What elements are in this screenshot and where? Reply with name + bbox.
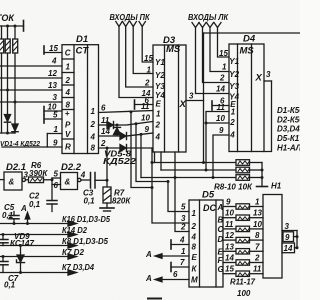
svg-text:8: 8 [255,231,260,240]
svg-text:3: 3 [285,222,290,231]
svg-text:Y3: Y3 [229,82,239,91]
svg-text:B: B [218,216,224,225]
svg-text:Y2: Y2 [155,71,165,80]
svg-text:4: 4 [179,236,185,245]
svg-text:4: 4 [80,171,86,180]
svg-text:14: 14 [101,127,110,136]
svg-text:Y1: Y1 [155,58,165,67]
svg-text:К8 D1,D3-D5: К8 D1,D3-D5 [62,237,109,246]
svg-text:MS: MS [240,46,255,57]
svg-text:ТОК: ТОК [0,13,15,23]
svg-text:R11-17: R11-17 [230,278,256,287]
svg-text:1: 1 [91,107,96,116]
svg-text:13: 13 [253,209,262,218]
svg-text:0,1: 0,1 [84,197,96,206]
svg-text:E: E [192,253,198,262]
svg-text:390К: 390К [29,169,48,178]
svg-text:М: М [191,276,198,285]
svg-text:К16 D1,D3-D5: К16 D1,D3-D5 [62,215,111,224]
svg-text:1: 1 [231,108,236,117]
svg-text:R8-10 10К: R8-10 10К [214,183,253,192]
svg-text:&: & [65,178,71,187]
svg-text:1: 1 [222,63,227,72]
svg-text:15: 15 [225,265,234,274]
svg-text:14: 14 [216,85,225,94]
svg-text:11: 11 [253,265,262,274]
svg-text:&: & [9,178,15,187]
svg-text:12: 12 [225,231,234,240]
svg-text:11: 11 [141,102,150,111]
svg-text:R: R [65,143,71,152]
svg-text:КД522: КД522 [103,157,137,166]
svg-text:9: 9 [226,198,231,207]
svg-text:15: 15 [144,54,153,63]
svg-text:К14 D2: К14 D2 [62,226,88,235]
svg-text:3: 3 [24,171,29,180]
svg-text:1: 1 [192,209,197,218]
svg-text:ВХОДЫ ПК: ВХОДЫ ПК [110,13,151,22]
svg-text:13: 13 [48,81,57,90]
svg-text:1: 1 [54,125,59,134]
svg-text:7: 7 [180,258,185,267]
svg-text:MS: MS [166,44,181,55]
svg-text:14: 14 [284,244,293,253]
svg-text:D5-К176: D5-К176 [277,134,300,143]
svg-text:10: 10 [141,114,150,123]
svg-text:4: 4 [229,131,235,140]
svg-text:D1: D1 [76,34,88,45]
svg-text:2: 2 [219,74,225,83]
svg-text:14: 14 [225,254,234,263]
svg-text:1: 1 [147,66,152,75]
svg-text:Y2: Y2 [229,70,239,79]
svg-text:D1-К561: D1-К561 [277,106,300,115]
svg-text:КС147: КС147 [10,239,34,248]
svg-text:4: 4 [51,57,57,66]
svg-text:5: 5 [53,111,58,120]
svg-text:V: V [65,130,71,139]
svg-text:4: 4 [155,133,161,142]
svg-text:3: 3 [266,70,271,79]
svg-text:D2-К561: D2-К561 [277,116,300,125]
svg-text:CT: CT [76,46,90,57]
svg-text:1: 1 [181,247,186,256]
svg-text:6: 6 [101,104,106,113]
svg-text:К7 D3,D4: К7 D3,D4 [62,263,95,272]
svg-text:10: 10 [225,209,234,218]
svg-text:4: 4 [191,233,197,242]
svg-text:Y3: Y3 [155,82,165,91]
svg-text:12: 12 [48,69,57,78]
svg-text:4: 4 [90,133,96,142]
svg-text:9: 9 [145,125,150,134]
svg-text:8: 8 [91,144,96,153]
svg-text:100: 100 [237,289,251,298]
svg-text:9: 9 [219,126,224,135]
svg-text:7: 7 [255,242,260,251]
svg-text:3: 3 [189,92,194,101]
svg-text:11: 11 [217,103,226,112]
svg-text:Н1-АЛС3: Н1-АЛС3 [277,144,300,153]
svg-text:1: 1 [66,63,71,72]
svg-text:11: 11 [225,220,234,229]
svg-text:15: 15 [49,44,58,53]
svg-text:13: 13 [225,242,234,251]
svg-text:А: А [145,274,152,283]
svg-text:Н1: Н1 [271,182,282,191]
svg-text:9: 9 [53,139,58,148]
svg-text:DC: DC [203,203,216,213]
svg-text:E: E [156,100,162,109]
svg-text:0,1: 0,1 [29,200,41,209]
svg-text:5: 5 [54,170,59,179]
svg-text:10: 10 [253,220,262,229]
svg-text:5: 5 [181,203,186,212]
svg-text:D2.2: D2.2 [61,162,82,173]
svg-text:G: G [218,265,224,274]
svg-text:2: 2 [155,121,161,130]
svg-text:6: 6 [173,270,178,279]
svg-text:2: 2 [100,139,106,148]
svg-text:D3,D4-К: D3,D4-К [277,125,300,134]
svg-text:9: 9 [285,233,290,242]
svg-text:10: 10 [216,114,225,123]
svg-text:ВХОДЫ ЛК: ВХОДЫ ЛК [188,13,229,22]
svg-text:2: 2 [180,223,186,232]
svg-text:1: 1 [255,198,260,207]
svg-text:15: 15 [219,49,228,58]
svg-text:8: 8 [192,243,197,252]
svg-text:+: + [65,109,70,118]
svg-text:3: 3 [53,93,58,102]
svg-text:А: А [20,204,27,213]
svg-text:2: 2 [65,76,71,85]
svg-text:820К: 820К [112,197,131,206]
svg-text:А: А [145,250,152,259]
svg-text:P: P [65,121,71,130]
svg-text:2: 2 [90,120,96,129]
svg-text:0,1: 0,1 [4,281,16,290]
svg-text:4: 4 [65,88,71,97]
svg-text:6: 6 [54,181,59,190]
svg-text:D4: D4 [243,34,256,45]
svg-text:2: 2 [191,222,197,231]
svg-text:X: X [179,99,187,110]
svg-text:2: 2 [144,79,150,88]
svg-text:Y1: Y1 [229,57,239,66]
svg-text:A: A [217,203,224,212]
svg-text:2: 2 [229,118,235,127]
svg-text:C: C [65,49,71,58]
svg-text:X: X [255,73,263,84]
svg-text:К7 D2: К7 D2 [62,248,85,257]
svg-text:1: 1 [156,110,161,119]
svg-text:2: 2 [254,254,260,263]
svg-text:D5: D5 [202,190,215,201]
